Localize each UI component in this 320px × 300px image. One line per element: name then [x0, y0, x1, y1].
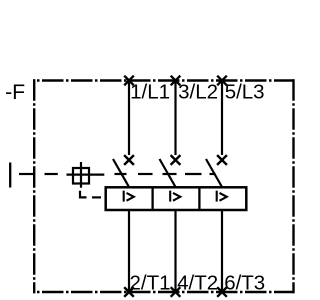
svg-text:1/L1: 1/L1 — [130, 81, 170, 104]
dashed trip linkage — [80, 191, 101, 198]
wire 3/L2 down — [174, 81, 176, 156]
breaker blade pole 2 — [160, 159, 176, 187]
enclosure border right — [292, 79, 294, 293]
breaker blade pole 1 — [113, 159, 129, 187]
I> symbol pole 2 — [170, 191, 180, 202]
svg-text:3/L2: 3/L2 — [178, 81, 218, 104]
terminal X at 2/T1 — [124, 287, 134, 297]
enclosure border left — [33, 79, 35, 293]
svg-text:6/T3: 6/T3 — [224, 271, 265, 294]
latch mechanism square — [67, 162, 105, 188]
svg-text:5/L3: 5/L3 — [225, 81, 265, 104]
pole 3 group — [206, 76, 227, 297]
I> symbol pole 3 — [217, 191, 227, 202]
pole 2 group — [160, 76, 181, 297]
terminal X at 3/L2 — [171, 76, 181, 86]
divider 1 — [151, 187, 153, 210]
contact X pole 1 — [124, 155, 134, 165]
manual actuator bar — [9, 163, 11, 188]
enclosure border top — [33, 79, 295, 293]
wire 1/L1 down — [128, 81, 130, 156]
I> symbol pole 1 — [124, 191, 134, 202]
overload trip unit box — [106, 187, 247, 210]
mechanism dashed link — [19, 173, 216, 175]
svg-text:-F: -F — [5, 80, 25, 104]
pole 1 group — [113, 76, 134, 297]
terminal X at 4/T2 — [171, 287, 181, 297]
svg-text:2/T1: 2/T1 — [130, 271, 171, 294]
wire 5/L3 down — [221, 81, 223, 156]
enclosure border bottom — [33, 291, 295, 293]
terminal X at 1/L1 — [124, 76, 134, 86]
terminal X at 5/L3 — [217, 76, 227, 86]
wire 2/T1 down — [128, 210, 130, 292]
contact X pole 2 — [171, 155, 181, 165]
wire 6/T3 down — [221, 210, 223, 292]
terminal X at 6/T3 — [217, 287, 227, 297]
wire 4/T2 down — [174, 210, 176, 292]
contact X pole 3 — [217, 155, 227, 165]
breaker blade pole 3 — [206, 159, 222, 187]
svg-text:4/T2: 4/T2 — [177, 271, 218, 294]
divider 2 — [198, 187, 200, 210]
